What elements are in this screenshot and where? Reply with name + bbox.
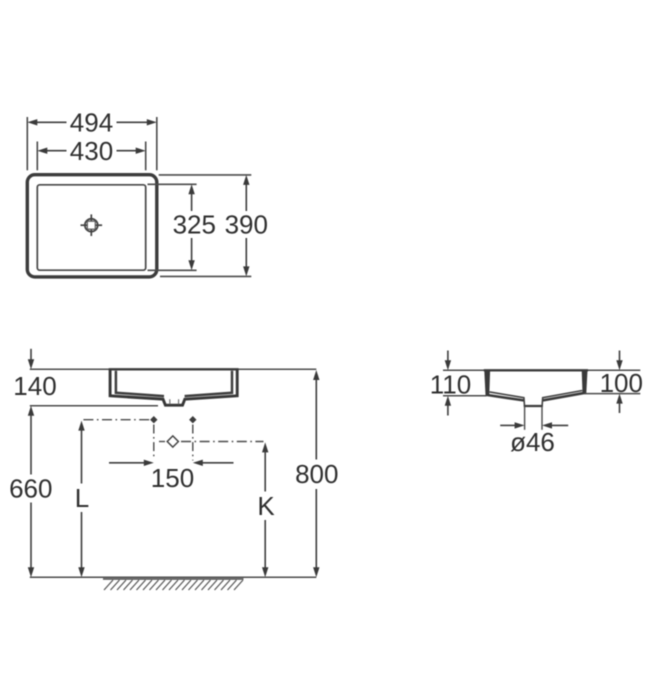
drain square hole	[87, 221, 95, 229]
svg-text:800: 800	[295, 459, 338, 489]
svg-text:150: 150	[151, 463, 194, 493]
faucet mark centerline left (vertical dash-dot)	[153, 425, 155, 460]
svg-text:110: 110	[430, 370, 471, 400]
dim 140 arrow (top, pointing down)	[30, 349, 32, 361]
svg-text:K: K	[257, 491, 275, 521]
basin top edge (front)	[109, 368, 239, 370]
dim 430 extension lines	[37, 142, 145, 171]
basin bowl + bottom (side)	[490, 391, 583, 406]
top reference line right	[587, 369, 640, 371]
dim L line + arrows	[78, 421, 84, 431]
dim K line + arrows	[262, 442, 268, 452]
faucet mark centerline right (vertical dash-dot)	[192, 425, 194, 461]
dim 390 line + arrows	[245, 184, 247, 268]
dim 800 line + arrows	[313, 370, 319, 380]
bottom reference line right	[585, 393, 641, 395]
basin inner bowl edge (plan)	[37, 185, 145, 270]
svg-text:430: 430	[70, 136, 113, 166]
drain circle	[85, 219, 98, 232]
basin left rim block (side)	[484, 371, 490, 396]
bottom reference line left	[443, 395, 487, 397]
basin outer rim (plan)	[27, 175, 157, 277]
dim 430 line + arrows	[46, 150, 137, 152]
svg-text:140: 140	[13, 371, 56, 401]
dim 100 arrows	[619, 351, 621, 414]
faucet hole mark left	[150, 416, 157, 423]
top reference line left	[443, 369, 485, 371]
dim 325 extension lines	[148, 184, 197, 270]
svg-text:100: 100	[600, 368, 643, 398]
svg-text:390: 390	[225, 210, 268, 240]
drain stub extension lines	[525, 407, 542, 430]
rim bottom reference line	[30, 405, 158, 407]
short centre line left of diamond	[159, 441, 165, 443]
dim 390 extension lines	[159, 175, 252, 277]
dim 150 arrows	[109, 462, 234, 464]
dim 110 arrows	[447, 351, 449, 416]
floor hatching	[104, 580, 243, 590]
faucet hole mark right	[189, 416, 196, 423]
drain stub inner walls (front)	[170, 399, 179, 404]
svg-text:ø46: ø46	[510, 427, 555, 457]
centre line to K (horizontal dash-dot)	[181, 441, 264, 443]
PLAN VIEW	[27, 108, 268, 277]
SIDE VIEW	[430, 351, 643, 458]
dim 494 line + arrows	[36, 121, 148, 123]
FRONT VIEW	[9, 349, 338, 590]
basin inner rim lines (front)	[116, 371, 232, 396]
basin top edge (side)	[484, 369, 588, 371]
basin centre mark (open diamond)	[167, 436, 178, 447]
dim 325 line + arrows	[191, 193, 193, 262]
top reference line (basin top level)	[30, 368, 317, 370]
svg-text:494: 494	[70, 108, 113, 138]
drain stub bottom edge (side)	[524, 405, 543, 407]
svg-text:660: 660	[9, 474, 52, 504]
floor hatch band top line	[103, 578, 244, 580]
faucet centerline (horizontal dash-dot)	[83, 419, 150, 421]
svg-text:L: L	[75, 483, 89, 513]
dim 494 extension lines	[27, 117, 157, 170]
dim 660 line + arrows	[28, 406, 34, 416]
basin bottom outer line (side)	[487, 393, 586, 401]
floor line	[30, 576, 317, 578]
basin outline (front)	[110, 370, 237, 405]
basin right rim block (side)	[582, 371, 588, 394]
dim o46 arrows	[500, 424, 568, 426]
svg-text:325: 325	[173, 210, 216, 240]
drain crosshair ticks	[81, 214, 103, 236]
